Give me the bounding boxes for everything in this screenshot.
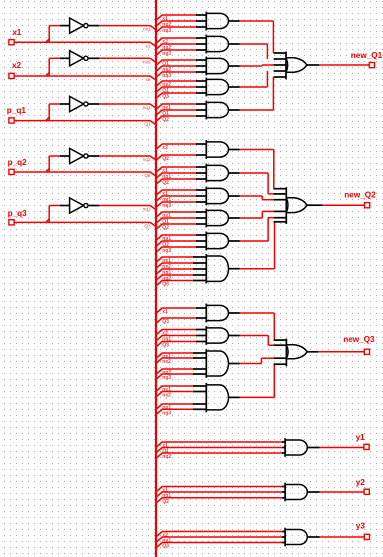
wire bus Q1 to G4 — [157, 87, 197, 94]
wire bus nq3 to G14 — [157, 374, 194, 381]
wire bus nq2 to G16 — [157, 453, 283, 460]
wire bus x1 to G1 — [157, 15, 197, 22]
wire bus nq3 to G8 — [157, 202, 197, 209]
svg-text:Q3: Q3 — [162, 343, 169, 349]
wire bus nx1 to G5 — [157, 104, 197, 111]
svg-text:Q2: Q2 — [162, 225, 169, 231]
wire bus nq1 to G13 — [157, 336, 197, 343]
svg-text:nq3: nq3 — [162, 51, 171, 57]
wire bus x1 to G7 — [157, 167, 197, 174]
svg-text:Q2: Q2 — [162, 180, 169, 186]
wire bus nq1 to G7 — [157, 173, 197, 180]
or gate OR1 — [274, 52, 319, 80]
wire G11 out to OR2 — [239, 222, 274, 269]
wire bus nq1 to G17 — [157, 492, 283, 499]
and gate G13 — [196, 326, 240, 345]
wire G6 out to OR2 — [239, 150, 273, 189]
wire bus x2 to G2 — [157, 38, 197, 45]
svg-text:nx2: nx2 — [162, 359, 171, 365]
wire bus nq2 to G3 — [157, 66, 197, 73]
wire branch to inverter U2 — [46, 58, 61, 76]
wire bus Q1 to G16 — [157, 448, 283, 455]
wire OR1 to new_Q1 — [319, 64, 369, 66]
wire bus x2 to G13 — [157, 330, 197, 337]
output port y1 — [356, 433, 370, 449]
svg-text:y1: y1 — [356, 433, 366, 442]
svg-text:Q3: Q3 — [162, 94, 169, 100]
and gate G10 — [196, 232, 240, 251]
wire bus nx1 to G9 — [157, 212, 197, 219]
input port p_q1 — [7, 106, 27, 123]
svg-text:new_Q2: new_Q2 — [344, 190, 376, 199]
wire bus nq1 to G15 — [157, 404, 194, 411]
wire bus nq3 to G1 — [157, 27, 197, 34]
wire p_q1 to bus — [14, 121, 156, 127]
wire bus nx2 to G11 — [157, 263, 194, 270]
and gate G12 — [196, 304, 240, 323]
inverter U3 — [60, 96, 99, 111]
wire nq3 to bus — [99, 206, 156, 212]
and gate G8 — [196, 187, 240, 206]
svg-text:x1: x1 — [162, 309, 168, 315]
wire bus nq3 to G10 — [157, 247, 197, 254]
wire branch to inverter U5 — [46, 206, 61, 223]
wire branch to inverter U4 — [46, 156, 61, 173]
wire branch to inverter U3 — [46, 104, 61, 121]
svg-text:x2: x2 — [146, 77, 151, 82]
wire bus nq1 to G11 — [157, 269, 194, 276]
wire bus Q2 to G9 — [157, 224, 197, 231]
svg-text:y2: y2 — [356, 478, 366, 487]
wire G1 out to OR1 — [239, 21, 273, 53]
wire bus x1 to G8 — [157, 190, 197, 197]
and gate G5 — [196, 101, 240, 120]
wire G14 out to OR3 — [239, 358, 273, 363]
wire bus x1 to G17 — [157, 487, 283, 494]
and gate G17 — [282, 483, 320, 502]
svg-text:nq3: nq3 — [162, 375, 171, 381]
wire bus nq3 to G2 — [157, 50, 197, 57]
svg-text:Q3: Q3 — [162, 282, 169, 288]
wire bus nx1 to G11 — [157, 257, 194, 264]
wire bus Q1 to G3 — [157, 60, 197, 67]
svg-text:nq3: nq3 — [162, 203, 171, 209]
inverter U2 — [60, 51, 99, 66]
wire bus x1 to G12 — [157, 308, 197, 315]
svg-text:y3: y3 — [356, 521, 366, 530]
svg-text:Q2: Q2 — [162, 156, 169, 162]
svg-text:nq1: nq1 — [143, 105, 151, 110]
wire bus nx2 to G15 — [157, 392, 194, 399]
wire nq1 to bus — [99, 104, 156, 110]
output port new_Q2 — [344, 190, 376, 208]
and gate G6 — [196, 140, 240, 159]
wire G2 out to OR1 — [239, 44, 267, 59]
output port y3 — [356, 521, 370, 539]
wire bus nq1 to G18 — [157, 537, 283, 544]
wire branch to inverter U1 — [46, 26, 61, 43]
wire p_q2 to bus — [14, 172, 156, 178]
wire nx1 to bus — [99, 26, 156, 32]
wire bus nq2 to G1 — [157, 21, 197, 28]
wire G18 to y3 — [320, 536, 365, 538]
wire bus Q2 to G5 — [157, 116, 197, 123]
wire bus nq1 to G8 — [157, 196, 197, 203]
and gate G15 — [193, 383, 240, 412]
wire G17 to y2 — [320, 491, 365, 493]
svg-text:nx1: nx1 — [143, 27, 151, 32]
wire G10 out to OR2 — [239, 218, 273, 241]
wire x2 to bus — [14, 76, 156, 82]
svg-text:Q1: Q1 — [144, 122, 151, 127]
wire bus nq3 to G3 — [157, 72, 197, 79]
input port p_q3 — [8, 209, 28, 225]
wire bus Q3 to G18 — [157, 543, 283, 550]
wire bus nx1 to G14 — [157, 353, 194, 360]
wire bus Q3 to G13 — [157, 342, 197, 349]
svg-text:x2: x2 — [12, 61, 22, 70]
svg-text:x2: x2 — [162, 145, 168, 151]
svg-text:nq3: nq3 — [143, 207, 151, 212]
wire bus nx1 to G15 — [157, 386, 194, 393]
wire G12 out to OR3 — [239, 313, 274, 340]
wire bus nq2 to G2 — [157, 44, 197, 51]
wire G3 out to OR1 — [239, 65, 273, 66]
wire G4 out to OR1 — [239, 71, 267, 87]
wire bus nq3 to G15 — [157, 409, 194, 416]
wire bus Q1 to G5 — [157, 110, 197, 117]
and gate G7 — [196, 164, 240, 183]
wire bus nq1 to G10 — [157, 235, 197, 242]
svg-text:x1: x1 — [12, 28, 22, 37]
wire G9 out to OR2 — [239, 211, 273, 218]
output port new_Q1 — [351, 51, 383, 68]
wire bus nq2 to G11 — [157, 275, 194, 282]
wire OR3 to new_Q3 — [318, 351, 364, 353]
svg-text:p_q2: p_q2 — [8, 158, 28, 167]
wire bus x1 to G16 — [157, 442, 283, 449]
inverter U4 — [60, 148, 99, 163]
wire G16 to y1 — [320, 447, 364, 449]
or gate OR3 — [274, 339, 319, 367]
wire bus Q2 to G7 — [157, 179, 197, 186]
wire G5 out to OR1 — [239, 77, 273, 110]
wire bus nx2 to G14 — [157, 358, 194, 365]
wire bus nx2 to G4 — [157, 81, 197, 88]
svg-text:nq3: nq3 — [162, 248, 171, 254]
output port new_Q3 — [343, 335, 375, 354]
output port y2 — [356, 478, 370, 494]
wire G7 out to OR2 — [239, 173, 273, 194]
wire x1 to bus — [14, 42, 156, 48]
svg-text:Q2: Q2 — [162, 499, 169, 505]
wire nx2 to bus — [99, 58, 156, 64]
wire bus Q3 to G12 — [157, 318, 197, 325]
svg-text:Q3: Q3 — [144, 224, 151, 229]
and gate G9 — [196, 209, 240, 228]
svg-text:Q2: Q2 — [144, 173, 151, 178]
svg-text:nq2: nq2 — [162, 454, 171, 460]
wire p_q3 to bus — [14, 222, 156, 228]
wire vertical bus net — [155, 0, 157, 557]
svg-text:Q3: Q3 — [162, 319, 169, 325]
inverter U5 — [60, 198, 99, 213]
svg-text:Q2: Q2 — [162, 117, 169, 123]
svg-text:p_q3: p_q3 — [8, 209, 28, 218]
wire bus x2 to G6 — [157, 144, 197, 151]
wire bus nq2 to G14 — [157, 369, 194, 376]
svg-text:x1: x1 — [146, 43, 151, 48]
svg-text:new_Q3: new_Q3 — [343, 335, 375, 344]
svg-text:nq2: nq2 — [143, 157, 151, 162]
wire G13 out to OR3 — [239, 336, 273, 346]
wire nq2 to bus — [99, 156, 156, 162]
svg-text:nq3: nq3 — [162, 73, 171, 79]
wire G8 out to OR2 — [239, 196, 273, 200]
or gate OR2 — [274, 187, 323, 224]
svg-text:p_q1: p_q1 — [7, 106, 27, 115]
svg-text:Q3: Q3 — [162, 544, 169, 550]
and gate G3 — [196, 57, 240, 76]
and gate G14 — [193, 349, 240, 378]
wire bus Q2 to G10 — [157, 241, 197, 248]
input port p_q2 — [8, 158, 28, 174]
and gate G11 — [193, 254, 240, 284]
wire bus Q2 to G17 — [157, 498, 283, 505]
input port x2 — [9, 61, 22, 78]
wire bus Q3 to G11 — [157, 281, 194, 288]
and gate G16 — [282, 438, 320, 457]
and gate G18 — [282, 528, 320, 547]
svg-text:nx2: nx2 — [143, 59, 151, 64]
svg-text:new_Q1: new_Q1 — [351, 51, 383, 60]
and gate G1 — [196, 12, 240, 31]
inverter U1 — [60, 18, 99, 33]
svg-text:nx2: nx2 — [162, 393, 171, 399]
wire bus Q2 to G6 — [157, 155, 197, 162]
input port x1 — [9, 28, 22, 45]
and gate G4 — [196, 78, 240, 97]
wire bus Q3 to G4 — [157, 93, 197, 100]
wire bus Q1 to G9 — [157, 218, 197, 225]
svg-text:nq3: nq3 — [162, 410, 171, 416]
wire bus x2 to G18 — [157, 532, 283, 539]
wire OR2 to new_Q2 — [323, 204, 365, 206]
wire G15 out to OR3 — [239, 364, 274, 397]
svg-text:nq3: nq3 — [162, 28, 171, 34]
and gate G2 — [196, 35, 240, 54]
